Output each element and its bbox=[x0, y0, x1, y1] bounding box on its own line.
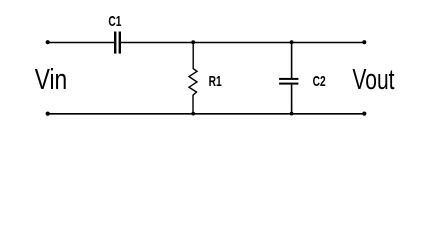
svg-text:Vin: Vin bbox=[35, 62, 68, 95]
svg-text:C2: C2 bbox=[313, 72, 326, 90]
svg-text:R1: R1 bbox=[209, 72, 222, 90]
svg-text:Vout: Vout bbox=[352, 64, 394, 96]
svg-text:C1: C1 bbox=[108, 12, 121, 30]
